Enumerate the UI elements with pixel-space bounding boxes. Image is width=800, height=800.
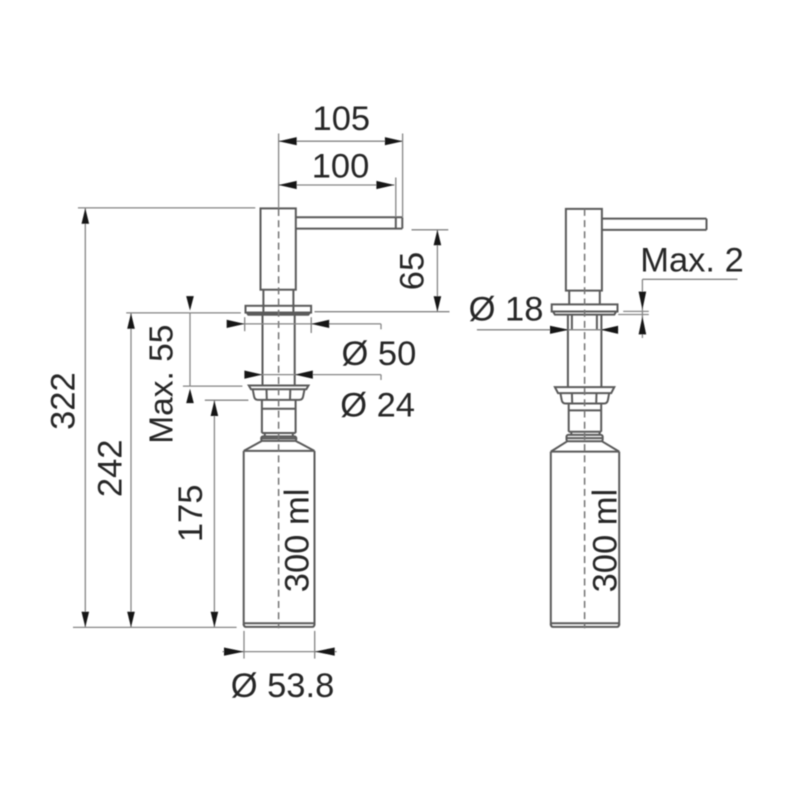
flare ring (right view)	[567, 435, 603, 441]
svg-text:105: 105	[313, 100, 371, 138]
dimension 322 (total height)	[78, 207, 255, 209]
gasket under flange (left view)	[247, 313, 310, 315]
svg-text:300 ml: 300 ml	[586, 489, 624, 593]
svg-text:Max. 2: Max. 2	[640, 242, 744, 280]
flange disc Ø50 (left view)	[246, 306, 312, 313]
dimension Max. 2 (flange above counter)	[642, 278, 737, 280]
tube step (left view)	[264, 433, 266, 436]
flange disc (right view)	[552, 304, 618, 311]
pump tube (right view)	[568, 404, 570, 432]
centerline (right view)	[584, 209, 586, 628]
flare ring (left view)	[261, 436, 296, 441]
svg-text:322: 322	[44, 372, 82, 430]
pump head body (left view)	[261, 208, 296, 289]
svg-text:300 ml: 300 ml	[278, 489, 316, 593]
dimension Ø 50 (flange diameter)	[244, 317, 246, 331]
svg-text:100: 100	[312, 147, 370, 185]
counter flange (right view)	[555, 387, 614, 393]
svg-text:Ø 18: Ø 18	[469, 291, 544, 329]
dimension 242	[126, 312, 241, 314]
neck (right view)	[568, 291, 570, 305]
spout (left view)	[295, 216, 402, 218]
bottle shoulder (right view)	[551, 441, 567, 451]
threaded shaft Ø18 (right view)	[567, 315, 569, 388]
svg-text:Ø 50: Ø 50	[342, 335, 417, 373]
dimension Ø 24 (shaft diameter)	[246, 374, 381, 376]
spout (right view)	[602, 218, 707, 220]
tube step (right view)	[570, 432, 572, 435]
dimension 65 (spout height)	[412, 229, 449, 231]
lock nut (left view)	[253, 389, 305, 400]
neck / threaded shaft (left view)	[262, 290, 264, 315]
gasket under flange (right view)	[553, 312, 616, 315]
dimension Ø 18 (right shaft diameter)	[477, 329, 618, 331]
svg-text:Ø 24: Ø 24	[340, 386, 415, 424]
pump tube (left view)	[261, 400, 263, 433]
pump head body (right view)	[566, 209, 602, 291]
counter flange (left view)	[249, 386, 309, 390]
bottle 300 ml (right view)	[550, 452, 552, 626]
bottle 300 ml (left view)	[243, 451, 245, 626]
dimension 175 (bottle clearance)	[205, 399, 249, 401]
dimension 105 (spout reach)	[279, 140, 403, 142]
svg-text:Max. 55: Max. 55	[144, 325, 181, 444]
svg-text:242: 242	[91, 440, 129, 498]
dimension Ø 53.8 (bottle diameter)	[243, 631, 245, 659]
bottom reference line	[73, 626, 237, 628]
svg-text:65: 65	[393, 252, 431, 290]
centerline (left view)	[278, 134, 280, 209]
dimension Max. 55 (counter thickness)	[183, 385, 243, 387]
bottle shoulder (left view)	[244, 441, 262, 451]
svg-text:Ø 53.8: Ø 53.8	[231, 667, 335, 705]
dimension 100	[279, 184, 395, 186]
svg-text:175: 175	[172, 485, 210, 543]
lock nut (right view)	[560, 393, 609, 403]
